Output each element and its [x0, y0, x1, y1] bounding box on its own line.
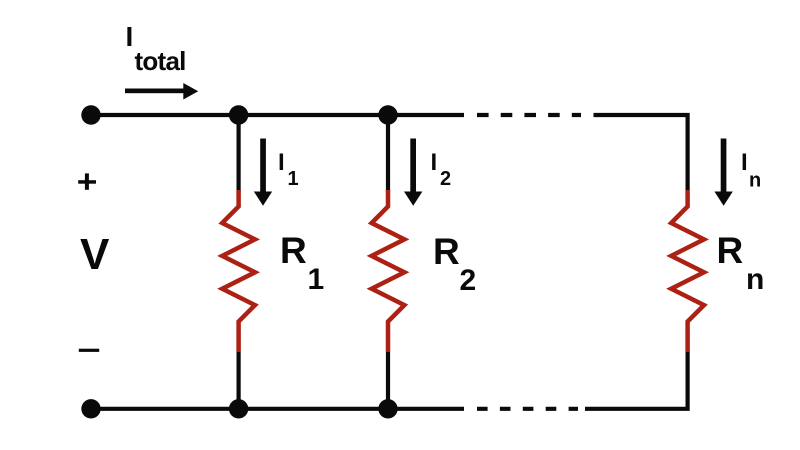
svg-text:I: I	[431, 149, 438, 176]
terminal node bottom-left	[81, 399, 100, 418]
wire: R1 to bottom node C	[237, 352, 241, 409]
label Rn	[717, 230, 765, 296]
wire top: dashed continuation	[477, 113, 581, 117]
wire: R2 to bottom node D	[386, 352, 390, 409]
label R1	[280, 230, 324, 296]
wire bottom right corner from Rn	[585, 352, 688, 409]
junction node A (top of R1)	[229, 105, 248, 124]
wire top: node A to node B	[239, 113, 388, 117]
wire: node A down to R1	[237, 115, 241, 192]
wire bottom: node D solid segment	[388, 407, 464, 411]
svg-text:I: I	[741, 149, 748, 176]
svg-text:R: R	[280, 230, 307, 271]
svg-text:I: I	[126, 21, 134, 52]
wire bottom: dashed continuation	[477, 407, 578, 411]
label I_total	[126, 21, 186, 76]
svg-text:2: 2	[440, 168, 451, 190]
label + (source positive)	[78, 180, 96, 184]
current arrow I2	[404, 139, 422, 206]
svg-text:n: n	[746, 263, 764, 296]
wire bottom: node C to left terminal	[91, 407, 239, 411]
svg-text:n: n	[749, 170, 761, 192]
svg-text:I: I	[278, 149, 285, 176]
junction node D (bottom of R2)	[378, 399, 397, 418]
svg-text:1: 1	[308, 263, 325, 296]
resistor R1	[222, 190, 255, 352]
wire bottom: node D to node C	[239, 407, 388, 411]
svg-text:R: R	[717, 230, 744, 271]
wire top right corner to Rn	[594, 115, 688, 190]
wire top: left terminal to node A	[91, 113, 239, 117]
terminal node top-left	[81, 105, 100, 124]
resistor Rn	[671, 190, 704, 352]
svg-text:1: 1	[288, 168, 299, 190]
svg-text:2: 2	[460, 264, 477, 297]
current arrow In	[714, 139, 732, 206]
label - (source negative)	[79, 349, 99, 352]
label In	[741, 149, 761, 192]
wire top: node B solid segment	[388, 113, 464, 117]
label R2	[433, 231, 476, 297]
svg-text:V: V	[80, 230, 110, 279]
label I1	[278, 149, 299, 190]
resistor R2	[372, 190, 405, 352]
junction node C (bottom of R1)	[229, 399, 248, 418]
current arrow I_total	[125, 83, 198, 100]
label I2	[431, 149, 452, 190]
svg-text:total: total	[135, 46, 186, 76]
current arrow I1	[254, 139, 272, 206]
junction node B (top of R2)	[378, 105, 397, 124]
wire: node B down to R2	[386, 115, 390, 192]
svg-text:R: R	[433, 231, 460, 272]
